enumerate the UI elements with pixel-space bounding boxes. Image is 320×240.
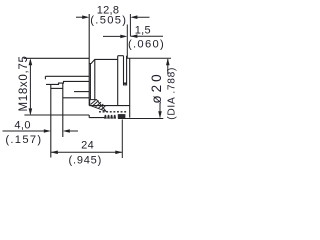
wire head left face (117, 56, 119, 106)
spigot pin top line (51, 87, 63, 89)
arrowhead 4.0 right (63, 129, 70, 133)
spigot tip face / 4.0-24 left extension line (50, 84, 52, 157)
svg-text:(.945): (.945) (69, 154, 103, 166)
wire inner vertical 1 (89, 64, 91, 100)
wire o-ring groove left (123, 56, 125, 86)
dia20 bottom extension line (118, 118, 163, 120)
svg-text:1,5: 1,5 (135, 25, 151, 37)
thread end block (118, 114, 126, 119)
spigot sleeve top line (45, 76, 89, 79)
wire barrel bottom / M18 bottom extension line (24, 115, 104, 118)
4.0 right arrow line (65, 130, 79, 132)
svg-text:(.157): (.157) (5, 134, 42, 146)
hatched wedge (thread relief section) (90, 100, 106, 112)
svg-text:24: 24 (81, 140, 94, 152)
spigot bottom line (63, 97, 90, 99)
arrowhead 12.8 left (82, 15, 89, 19)
1.5 left arrow line (103, 35, 125, 37)
wire body bottom mid line (89, 105, 130, 107)
arrowhead 24 right (115, 151, 122, 155)
thread teeth row (104, 115, 116, 119)
spigot mid line (74, 91, 89, 93)
1.5 left extension line (126, 25, 128, 59)
arrowhead 24 left (51, 151, 58, 155)
thread dashed crest line (99, 111, 128, 113)
12.8 left arrow line (76, 16, 87, 18)
dia20 bottom arrow line (159, 103, 161, 117)
12.8 right arrow line (133, 16, 150, 18)
o-ring groove bottom wedge (124, 83, 127, 87)
arrowhead dia20 bottom (158, 111, 162, 118)
svg-text:ø20: ø20 (149, 71, 164, 103)
wire head right face (129, 58, 131, 117)
svg-text:(DIA .788): (DIA .788) (166, 67, 177, 120)
dia20 top arrow line (167, 59, 169, 74)
dia20 top extension line (127, 57, 171, 59)
wire head top edge (118, 55, 124, 57)
arrowhead 12.8 right (130, 15, 137, 19)
wire step at top of body (89, 59, 118, 63)
arrowhead M18 top (29, 58, 33, 65)
svg-text:4,0: 4,0 (14, 120, 31, 132)
arrowhead M18 bottom (29, 108, 33, 115)
arrowhead 4.0 left (44, 129, 51, 133)
arrowheads (29, 15, 170, 154)
svg-text:M18x0,75: M18x0,75 (18, 55, 30, 111)
wire o-ring groove right (126, 56, 128, 86)
12.8 right extension line (129, 14, 131, 36)
spigot step / 4.0 right extension line (62, 83, 64, 137)
arrowhead dia20 top (166, 58, 170, 65)
24 right extension line (121, 120, 123, 159)
wire body left face / 12.8 left extension line (88, 14, 90, 106)
spigot stepped top edge (46, 81, 89, 84)
1.5 underline arrow (130, 35, 163, 37)
24 dimension line (51, 151, 123, 153)
wire barrel top edge / M18 top extension line (24, 57, 90, 59)
arrowhead 1.5 right (130, 34, 137, 38)
M18 dimension line (29, 60, 31, 114)
svg-text:(.505): (.505) (90, 15, 127, 27)
4.0 underline arrow (3, 130, 50, 132)
svg-text:(.060): (.060) (128, 38, 165, 50)
wire inner vertical 2 (94, 59, 96, 100)
arrowhead 1.5 left (120, 35, 127, 39)
